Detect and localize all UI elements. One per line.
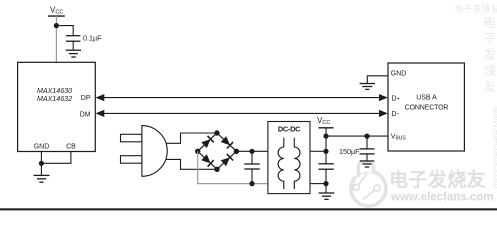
wire GND pin down [40, 152, 42, 164]
svg-text:CB: CB [66, 144, 76, 151]
svg-text:电: 电 [484, 16, 497, 30]
svg-text:CONNECTOR: CONNECTOR [405, 105, 449, 112]
svg-text:DC-DC: DC-DC [278, 124, 301, 133]
svg-text:子: 子 [484, 32, 497, 46]
wire DM to D- double arrow [103, 112, 382, 114]
ground at J1 GND [360, 84, 375, 90]
IC U1 MAX14630/MAX14632 box [18, 62, 96, 151]
transformer T1 secondary winding [294, 138, 300, 189]
node bridge negative (left) junction [195, 149, 200, 154]
svg-text:GND: GND [391, 70, 407, 77]
svg-text:DM: DM [80, 112, 91, 119]
transformer T1 primary winding [278, 138, 284, 189]
svg-text:发: 发 [484, 47, 497, 62]
node bridge positive (right) junction [234, 149, 239, 154]
ground below C1 [66, 50, 81, 57]
AC plug prong lower [121, 156, 142, 164]
wire Vcc to C1 [56, 26, 73, 36]
wire Vcc vertical (gray) to U1 [55, 16, 57, 62]
wire bridge right corner to DC-DC [236, 150, 268, 152]
wire Vcc node to VBUS [326, 135, 388, 137]
svg-text:USB A: USB A [416, 95, 437, 102]
wire GND (J1) left [367, 76, 388, 83]
node dot return/DC-DC out [323, 181, 328, 186]
Vcc supply bar (right) [319, 127, 334, 129]
bottom page border [0, 208, 497, 210]
capacitor C2 150uF [366, 136, 368, 149]
node junction dot GND/CB [39, 161, 44, 166]
wire bottom rail (gray) [197, 183, 268, 185]
wire plug lower to bridge bottom [166, 159, 217, 169]
svg-text:友: 友 [484, 80, 497, 94]
svg-text:D-: D- [392, 111, 400, 118]
node bridge AC top junction [214, 130, 219, 135]
ground below 150uF [360, 161, 375, 167]
diode D1 (left-top) [201, 139, 210, 148]
wire DP to D+ double arrow [103, 97, 382, 99]
capacitor filter (bulk) [251, 151, 253, 164]
svg-text:www.elecfans.com: www.elecfans.com [390, 192, 493, 204]
node junction dot Vcc [54, 23, 59, 28]
svg-text:0.1µF: 0.1µF [83, 33, 102, 42]
svg-text:D+: D+ [392, 96, 400, 103]
capacitor C1 0.1uF [66, 35, 80, 37]
svg-text:电子发烧友: 电子发烧友 [455, 3, 497, 14]
AC plug body [142, 126, 167, 177]
ground below U1 [40, 163, 42, 175]
node dot Vcc/VBUS [323, 134, 328, 139]
USB A connector box J1 [388, 63, 464, 151]
diode D4 (bottom-right) [221, 157, 230, 166]
node dot Vcc/DC-DC out [323, 149, 328, 154]
wire Vcc column [325, 128, 327, 164]
svg-text:烧: 烧 [484, 64, 497, 78]
svg-text:150µF: 150µF [339, 147, 360, 156]
Vcc supply bar (left) [48, 15, 65, 17]
node bridge AC bottom junction [214, 167, 219, 172]
wire CB pin down and left [41, 152, 71, 164]
wire plug upper to bridge top [166, 133, 217, 143]
node dot filter cap top [249, 149, 254, 154]
wire bridge left corner drop (gray) [197, 151, 199, 183]
DC-DC converter box U2 [268, 122, 310, 194]
svg-text:MAX14632: MAX14632 [37, 95, 72, 103]
diode D3 (left-bottom) [201, 154, 210, 163]
svg-text:www.elecfans.com: www.elecfans.com [491, 105, 497, 189]
capacitor output (Vcc column) [318, 163, 333, 165]
ground below Vcc column [319, 193, 335, 199]
diode D2 (top-right) [221, 136, 230, 145]
wire DC-DC top output to Vcc node [310, 150, 326, 152]
svg-text:VBUS: VBUS [391, 134, 407, 142]
node dot filter cap bottom [249, 181, 254, 186]
svg-text:电子发烧友: 电子发烧友 [389, 168, 486, 191]
bridge rectifier diamond [198, 133, 237, 169]
watermark logo circle [351, 162, 386, 206]
wire DC-DC bottom output to ground node [310, 183, 326, 185]
AC plug prong upper [121, 134, 142, 142]
svg-text:DP: DP [81, 95, 91, 102]
svg-text:GND: GND [34, 144, 50, 151]
node dot 150uF [364, 134, 369, 139]
